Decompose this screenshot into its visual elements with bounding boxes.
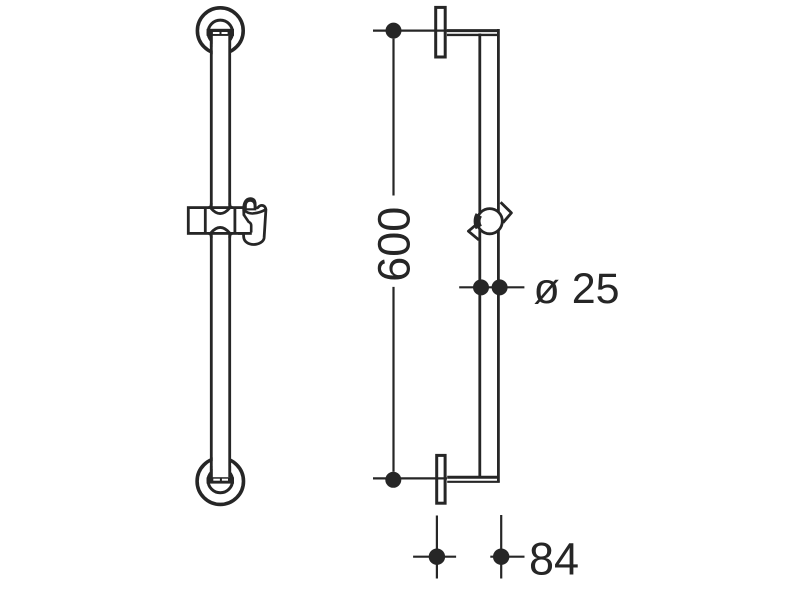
svg-text:84: 84 xyxy=(529,534,579,585)
svg-text:ø 25: ø 25 xyxy=(534,265,620,313)
svg-text:600: 600 xyxy=(369,207,420,282)
